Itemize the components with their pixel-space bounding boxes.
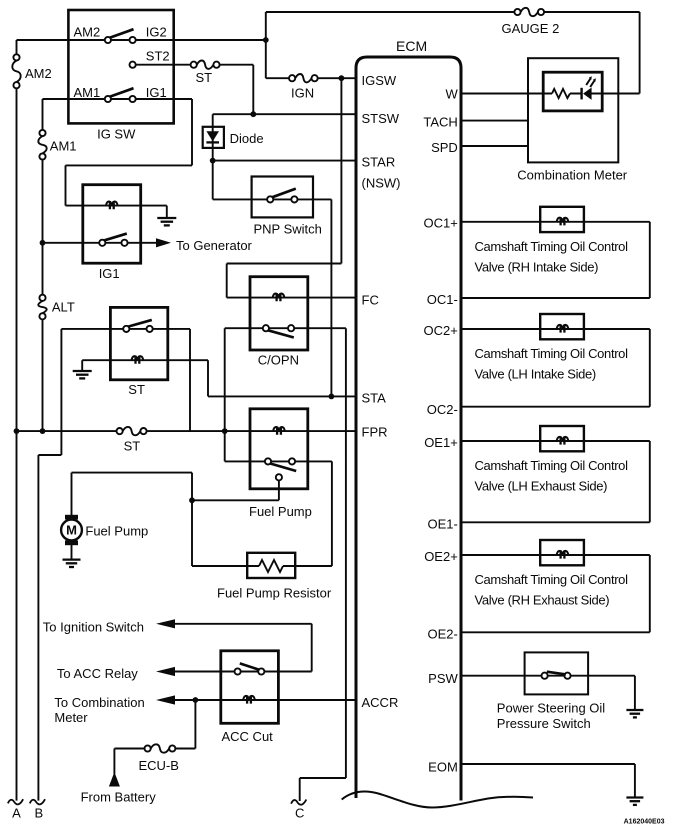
svg-text:To Generator: To Generator [176, 238, 253, 253]
svg-text:OE2-: OE2- [427, 626, 457, 641]
svg-text:M: M [66, 523, 77, 538]
svg-text:AM1: AM1 [74, 85, 101, 100]
svg-text:A: A [12, 806, 21, 821]
svg-text:A162040E03: A162040E03 [624, 818, 665, 825]
svg-text:ST: ST [124, 439, 141, 454]
svg-text:OC2-: OC2- [427, 402, 458, 417]
svg-text:Fuel Pump: Fuel Pump [249, 504, 312, 519]
svg-text:To Combination: To Combination [54, 695, 144, 710]
svg-text:OC1-: OC1- [427, 292, 458, 307]
svg-text:ACC Cut: ACC Cut [222, 729, 274, 744]
svg-text:Fuel Pump Resistor: Fuel Pump Resistor [217, 586, 332, 601]
svg-text:ST: ST [196, 70, 213, 85]
svg-text:C: C [295, 805, 304, 820]
svg-text:FPR: FPR [362, 424, 388, 439]
svg-text:OC2+: OC2+ [423, 323, 457, 338]
svg-text:OE1-: OE1- [427, 516, 457, 531]
svg-text:ST: ST [128, 382, 145, 397]
svg-text:C/OPN: C/OPN [258, 352, 299, 367]
svg-text:Camshaft Timing Oil Control: Camshaft Timing Oil Control [475, 572, 629, 587]
svg-text:EOM: EOM [428, 759, 458, 774]
svg-text:W: W [446, 87, 459, 102]
svg-text:Camshaft Timing Oil Control: Camshaft Timing Oil Control [475, 458, 629, 473]
svg-text:OE1+: OE1+ [424, 435, 458, 450]
svg-text:FC: FC [362, 293, 379, 308]
svg-text:Meter: Meter [54, 710, 88, 725]
svg-text:IG1: IG1 [99, 266, 120, 281]
svg-text:IG1: IG1 [146, 85, 167, 100]
svg-text:AM2: AM2 [25, 66, 52, 81]
svg-text:GAUGE 2: GAUGE 2 [502, 21, 560, 36]
svg-text:Valve (RH Intake Side): Valve (RH Intake Side) [475, 259, 599, 274]
svg-text:STA: STA [362, 390, 387, 405]
svg-text:IG SW: IG SW [97, 127, 136, 142]
svg-text:STSW: STSW [362, 111, 400, 126]
svg-text:AM1: AM1 [50, 139, 77, 154]
svg-text:Diode: Diode [230, 131, 264, 146]
svg-text:B: B [34, 806, 43, 821]
svg-text:Valve (LH Exhaust Side): Valve (LH Exhaust Side) [475, 479, 608, 494]
svg-text:ST2: ST2 [146, 48, 170, 63]
svg-text:To ACC Relay: To ACC Relay [57, 666, 138, 681]
svg-text:ECU-B: ECU-B [139, 758, 179, 773]
svg-text:OE2+: OE2+ [424, 549, 458, 564]
svg-text:ECM: ECM [396, 38, 427, 54]
svg-text:To Ignition Switch: To Ignition Switch [43, 619, 144, 634]
svg-text:PNP Switch: PNP Switch [254, 222, 322, 237]
svg-text:IGN: IGN [291, 86, 314, 101]
svg-text:IG2: IG2 [146, 25, 167, 40]
svg-text:SPD: SPD [431, 140, 458, 155]
svg-text:PSW: PSW [428, 671, 458, 686]
svg-text:OC1+: OC1+ [423, 215, 457, 230]
svg-text:Camshaft Timing Oil Control: Camshaft Timing Oil Control [475, 239, 629, 254]
svg-text:Valve (RH Exhaust Side): Valve (RH Exhaust Side) [475, 593, 610, 608]
svg-text:Pressure Switch: Pressure Switch [497, 716, 591, 731]
svg-text:Camshaft Timing Oil Control: Camshaft Timing Oil Control [475, 346, 629, 361]
svg-text:IGSW: IGSW [362, 73, 397, 88]
svg-text:Fuel Pump: Fuel Pump [85, 523, 148, 538]
svg-text:Combination Meter: Combination Meter [517, 167, 627, 182]
svg-text:ACCR: ACCR [362, 695, 399, 710]
svg-text:Valve (LH Intake Side): Valve (LH Intake Side) [475, 367, 596, 382]
svg-text:ALT: ALT [52, 300, 75, 315]
svg-text:From Battery: From Battery [81, 789, 157, 804]
svg-text:STAR: STAR [362, 154, 396, 169]
svg-text:Power Steering Oil: Power Steering Oil [497, 701, 605, 716]
svg-text:TACH: TACH [423, 115, 457, 130]
svg-text:(NSW): (NSW) [362, 176, 401, 191]
svg-text:AM2: AM2 [74, 25, 101, 40]
